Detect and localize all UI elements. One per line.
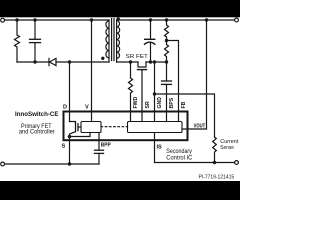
node: sense bottom xyxy=(213,161,216,164)
capacitor (BPS) xyxy=(162,62,172,111)
secondary controller inner box xyxy=(128,122,183,133)
capacitor (clamp) xyxy=(30,20,41,62)
svg-text:Control IC: Control IC xyxy=(166,156,193,162)
wire: source to controller xyxy=(70,133,91,137)
node: clamp C bottom xyxy=(33,60,36,63)
node: GND to sense wire xyxy=(153,92,156,95)
primary FET Q inside IC xyxy=(70,122,82,137)
wire: VOUT column xyxy=(182,20,207,129)
wire: SR pin stub inside box xyxy=(141,111,143,122)
svg-text:IS: IS xyxy=(157,145,163,151)
node: FET source / S pin xyxy=(68,135,72,139)
resistor (divider upper) xyxy=(165,20,169,41)
svg-text:GND: GND xyxy=(157,97,163,109)
svg-text:S: S xyxy=(62,143,66,149)
wire: secondary return xyxy=(117,61,138,63)
wire: output return rail xyxy=(155,162,235,164)
wire: primary top rail xyxy=(5,19,109,21)
node: FWD branch xyxy=(129,60,132,63)
svg-text:InnoSwitch-CE: InnoSwitch-CE xyxy=(15,111,59,118)
wire: secondary top rail xyxy=(117,19,235,21)
svg-text:BPS: BPS xyxy=(169,97,175,108)
node: drain / D pin tap xyxy=(68,60,71,63)
input terminal + xyxy=(1,18,5,22)
svg-text:D: D xyxy=(63,105,67,111)
svg-text:SR: SR xyxy=(145,101,151,108)
node: GND column top xyxy=(153,60,156,63)
capacitor (BPP) xyxy=(95,133,104,165)
wire: FB branch xyxy=(167,41,179,112)
wire: BPS pin stub inside box xyxy=(166,111,168,122)
wire: FWD pin stub inside box xyxy=(130,111,132,122)
wire: GND column xyxy=(154,62,156,111)
SR FET xyxy=(138,62,167,111)
resistor (clamp) xyxy=(15,20,20,62)
svg-text:FB: FB xyxy=(181,101,187,108)
node: output cap top xyxy=(149,18,152,21)
wire: IS pin column xyxy=(154,133,156,163)
svg-text:V: V xyxy=(85,105,89,111)
output terminal - xyxy=(235,161,239,165)
svg-text:VOUT: VOUT xyxy=(194,124,206,130)
svg-text:Secondary: Secondary xyxy=(166,149,192,155)
svg-text:SR FET: SR FET xyxy=(126,54,149,60)
node: clamp R top xyxy=(15,18,18,21)
wire: S pin column xyxy=(69,137,71,165)
wire: V pin column xyxy=(91,20,93,122)
wire: clamp bottom xyxy=(17,61,49,63)
transformer secondary polarity dot xyxy=(117,17,120,20)
wire: GND to current sense resistor xyxy=(155,94,215,137)
node: VOUT rail tap xyxy=(205,18,208,21)
svg-text:PI-7719-121415: PI-7719-121415 xyxy=(199,174,235,180)
svg-text:BPP: BPP xyxy=(101,143,111,149)
node: clamp C top xyxy=(33,18,36,21)
capacitor (output, polarized) xyxy=(145,20,155,62)
svg-text:FWD: FWD xyxy=(133,96,139,108)
transformer primary polarity dot xyxy=(101,57,104,60)
diode (clamp) xyxy=(49,58,109,65)
output terminal + xyxy=(235,18,239,22)
wire: D pin column xyxy=(69,62,71,122)
node: output cap bottom xyxy=(149,60,152,63)
wire: GND pin stub inside box xyxy=(154,111,156,122)
svg-text:and Controller: and Controller xyxy=(19,129,55,136)
node: divider top xyxy=(165,18,168,21)
FluxLink dashed link xyxy=(101,126,128,128)
transformer primary winding xyxy=(106,20,109,62)
wire: FB pin stub inside box xyxy=(178,111,180,122)
resistor (divider lower) xyxy=(165,41,169,63)
node: BPS / divider bottom xyxy=(165,60,168,63)
svg-text:Sense: Sense xyxy=(220,145,234,151)
node: divider mid / FB tap xyxy=(165,39,168,42)
transformer secondary winding xyxy=(117,20,120,62)
input terminal - xyxy=(1,162,5,166)
resistor (FWD) xyxy=(129,62,133,112)
resistor (current sense) xyxy=(213,137,217,163)
wire: primary bottom rail xyxy=(5,163,99,165)
transformer core xyxy=(112,19,114,61)
node: V pin rail tap xyxy=(90,18,93,21)
node: S to return rail xyxy=(68,162,71,165)
primary controller inner box xyxy=(81,122,101,133)
IC outer box U1 xyxy=(64,112,188,141)
